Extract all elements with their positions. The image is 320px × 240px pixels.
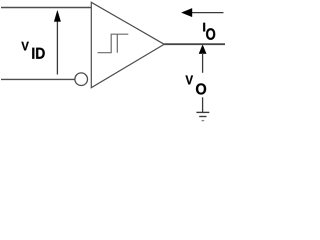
arrow: VO (up, at output node) bbox=[199, 45, 206, 73]
arrow: VID (up) bbox=[54, 11, 60, 75]
label IO bbox=[203, 23, 205, 32]
label VID bbox=[21, 42, 28, 51]
op-amp U1 (comparator triangle) bbox=[91, 2, 164, 87]
wire: top input (noninverting) bbox=[1, 7, 91, 9]
inversion bubble on inverting input bbox=[75, 73, 88, 86]
ground bbox=[196, 112, 209, 120]
wire: bottom input (inverting) bbox=[1, 78, 75, 80]
wire: output bbox=[164, 43, 225, 45]
wire: VO lead to ground bbox=[202, 97, 204, 112]
label VO bbox=[185, 75, 192, 84]
hysteresis symbol inside comparator bbox=[98, 34, 129, 53]
arrow: IO (left) bbox=[182, 8, 224, 16]
